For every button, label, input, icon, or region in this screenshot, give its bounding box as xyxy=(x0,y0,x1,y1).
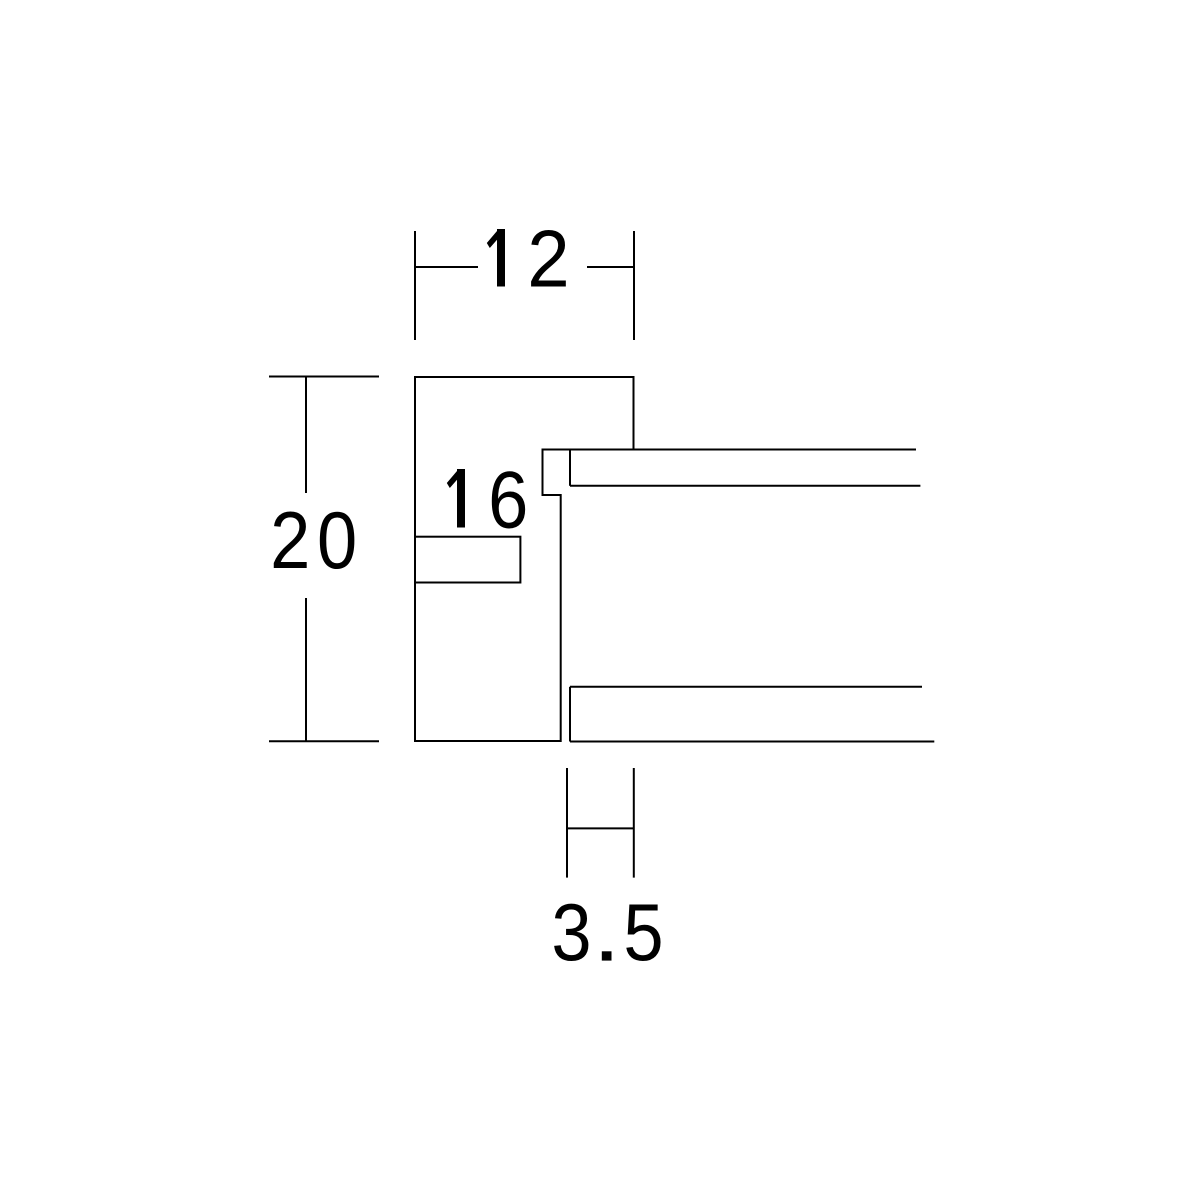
backboard top line xyxy=(570,686,922,688)
backboard left edge xyxy=(569,687,571,742)
glass sheet bottom line xyxy=(570,485,920,487)
svg-text:2: 2 xyxy=(270,497,310,586)
svg-text:0: 0 xyxy=(317,497,357,586)
backboard bottom line xyxy=(570,741,934,743)
dimension line: 3.5 xyxy=(567,827,634,829)
svg-text:5: 5 xyxy=(623,889,663,978)
glass sheet top line xyxy=(543,449,917,451)
dimension line: 12 (left segment) xyxy=(415,266,478,268)
dimension line: 20 (lower segment) xyxy=(305,598,307,741)
moulding profile outline xyxy=(415,377,634,741)
extension line: dim 3.5 left xyxy=(566,768,568,878)
dimension text 3.5 : decimal point xyxy=(602,951,612,960)
dimension line: 20 (upper segment) xyxy=(305,377,307,494)
glass sheet left edge xyxy=(569,450,571,486)
dimension line: 12 (right segment) xyxy=(587,266,634,268)
dimension text 16 : digit 1 (custom glyph) xyxy=(447,469,465,528)
svg-text:6: 6 xyxy=(488,456,528,545)
svg-text:3: 3 xyxy=(551,889,591,978)
extension line: dim 20 bottom xyxy=(269,740,379,742)
svg-text:2: 2 xyxy=(527,214,569,304)
dimension text 12 : digit 1 (custom glyph) xyxy=(487,229,505,287)
extension line: dim 12 right xyxy=(633,231,635,340)
extension line: dim 20 top xyxy=(269,376,379,378)
extension line: dim 12 left xyxy=(414,231,416,340)
extension line: dim 3.5 right xyxy=(633,768,635,878)
groove rectangle on left face xyxy=(415,537,520,583)
